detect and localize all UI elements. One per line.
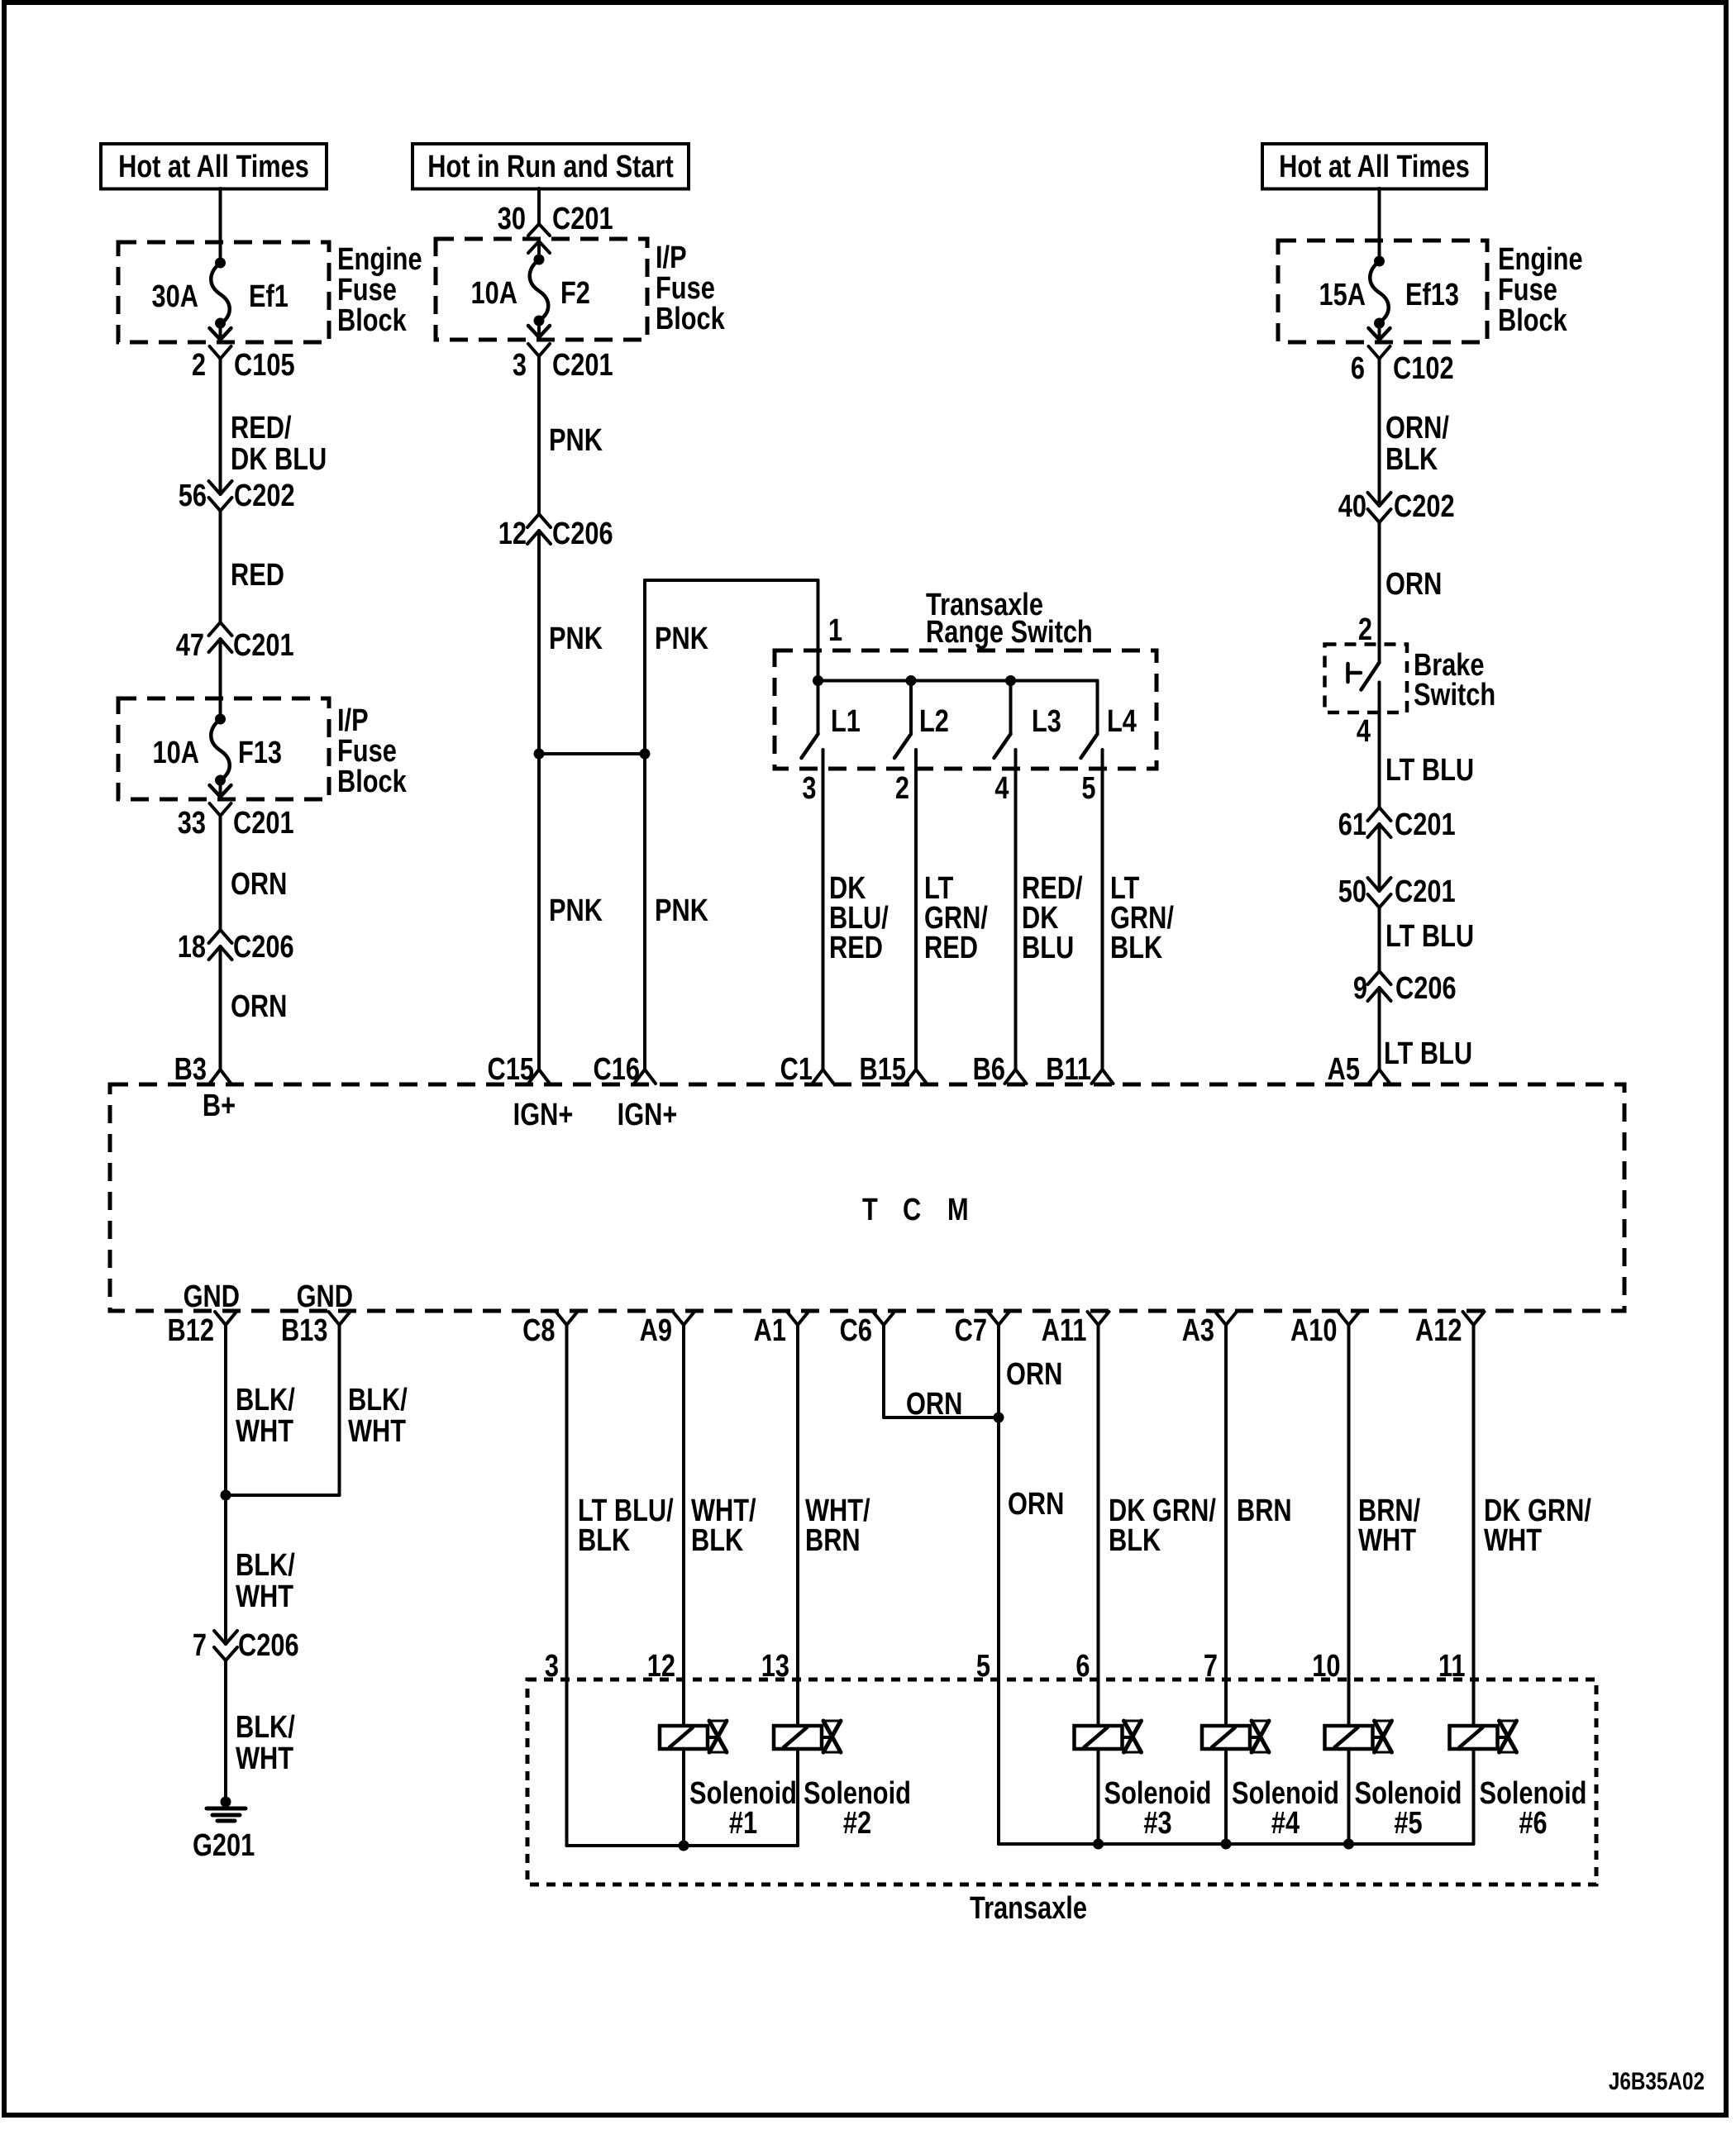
svg-text:3: 3 xyxy=(513,348,527,383)
svg-text:B11: B11 xyxy=(1046,1052,1091,1087)
svg-text:1: 1 xyxy=(828,613,842,648)
svg-text:I/P: I/P xyxy=(656,241,687,275)
svg-text:Fuse: Fuse xyxy=(337,273,397,307)
svg-text:61: 61 xyxy=(1338,808,1366,842)
svg-text:WHT: WHT xyxy=(236,1579,293,1614)
svg-text:BLK: BLK xyxy=(1109,1523,1161,1558)
svg-text:B13: B13 xyxy=(281,1313,327,1348)
svg-text:Engine: Engine xyxy=(337,242,422,277)
svg-text:Hot in Run and Start: Hot in Run and Start xyxy=(427,150,674,184)
svg-text:B3: B3 xyxy=(174,1052,207,1087)
svg-text:B6: B6 xyxy=(973,1052,1005,1087)
svg-text:C206: C206 xyxy=(552,517,613,551)
svg-text:B+: B+ xyxy=(203,1089,236,1123)
svg-text:C8: C8 xyxy=(522,1313,555,1348)
svg-text:BLK: BLK xyxy=(1385,442,1438,477)
svg-text:30: 30 xyxy=(498,202,526,236)
svg-text:7: 7 xyxy=(193,1628,207,1663)
svg-text:6: 6 xyxy=(1351,351,1365,386)
svg-text:Range Switch: Range Switch xyxy=(926,615,1093,650)
svg-text:WHT: WHT xyxy=(236,1414,293,1449)
svg-text:PNK: PNK xyxy=(655,893,708,928)
svg-text:ORN: ORN xyxy=(1008,1487,1064,1522)
svg-text:3: 3 xyxy=(802,771,816,806)
svg-text:Ef13: Ef13 xyxy=(1405,278,1459,312)
svg-text:C7: C7 xyxy=(955,1313,987,1348)
svg-text:13: 13 xyxy=(761,1649,789,1684)
svg-text:C: C xyxy=(903,1193,921,1227)
svg-text:ORN: ORN xyxy=(231,867,287,902)
svg-text:L2: L2 xyxy=(919,704,949,739)
svg-text:C202: C202 xyxy=(234,479,295,513)
svg-text:ORN: ORN xyxy=(1006,1357,1062,1392)
svg-text:C201: C201 xyxy=(233,806,294,841)
svg-text:LT BLU: LT BLU xyxy=(1385,753,1474,788)
svg-text:BLK: BLK xyxy=(1110,931,1162,965)
svg-text:Fuse: Fuse xyxy=(1498,273,1557,307)
svg-text:BLK: BLK xyxy=(691,1523,743,1558)
svg-text:DK BLU: DK BLU xyxy=(231,442,327,477)
svg-text:BLK/: BLK/ xyxy=(348,1383,408,1417)
svg-text:ORN/: ORN/ xyxy=(1385,411,1449,445)
svg-text:Hot at All Times: Hot at All Times xyxy=(1279,150,1470,184)
svg-text:RED: RED xyxy=(231,558,284,593)
svg-text:9: 9 xyxy=(1353,971,1367,1006)
svg-text:RED/: RED/ xyxy=(231,411,292,445)
svg-text:A12: A12 xyxy=(1415,1313,1462,1348)
svg-text:C202: C202 xyxy=(1394,489,1455,524)
svg-text:L3: L3 xyxy=(1032,704,1061,739)
svg-text:C201: C201 xyxy=(1395,874,1456,909)
svg-text:18: 18 xyxy=(178,930,206,965)
svg-text:A11: A11 xyxy=(1042,1313,1087,1348)
svg-text:J6B35A02: J6B35A02 xyxy=(1609,2067,1705,2095)
svg-text:40: 40 xyxy=(1338,489,1366,524)
svg-text:Hot at All Times: Hot at All Times xyxy=(118,150,309,184)
svg-text:RED: RED xyxy=(924,931,978,965)
svg-text:2: 2 xyxy=(192,348,206,383)
svg-text:#2: #2 xyxy=(843,1806,871,1841)
svg-text:C6: C6 xyxy=(840,1313,872,1348)
svg-text:2: 2 xyxy=(1358,612,1372,647)
svg-text:3: 3 xyxy=(545,1649,559,1684)
svg-text:F13: F13 xyxy=(238,736,282,770)
svg-text:C201: C201 xyxy=(552,348,613,383)
svg-text:12: 12 xyxy=(647,1649,675,1684)
svg-text:GND: GND xyxy=(297,1279,353,1314)
svg-text:11: 11 xyxy=(1438,1649,1466,1684)
svg-text:G201: G201 xyxy=(193,1828,255,1863)
svg-text:C15: C15 xyxy=(488,1052,534,1087)
svg-text:C206: C206 xyxy=(233,930,294,965)
svg-text:Transaxle: Transaxle xyxy=(970,1891,1087,1926)
svg-text:PNK: PNK xyxy=(549,622,603,656)
svg-text:C1: C1 xyxy=(780,1052,813,1087)
svg-text:BLK: BLK xyxy=(578,1523,630,1558)
svg-text:WHT: WHT xyxy=(1484,1523,1542,1558)
svg-text:A10: A10 xyxy=(1290,1313,1337,1348)
svg-text:ORN: ORN xyxy=(231,989,287,1024)
svg-text:Block: Block xyxy=(656,302,725,336)
svg-text:A9: A9 xyxy=(640,1313,672,1348)
svg-text:BRN: BRN xyxy=(805,1523,861,1558)
svg-text:2: 2 xyxy=(895,771,909,806)
svg-text:7: 7 xyxy=(1204,1649,1218,1684)
svg-text:C105: C105 xyxy=(234,348,295,383)
svg-text:BLK/: BLK/ xyxy=(236,1548,295,1583)
svg-text:50: 50 xyxy=(1338,874,1366,909)
svg-text:Block: Block xyxy=(337,765,407,799)
svg-text:10: 10 xyxy=(1312,1649,1340,1684)
svg-text:BRN: BRN xyxy=(1237,1494,1292,1528)
svg-text:T: T xyxy=(862,1193,878,1227)
svg-text:Block: Block xyxy=(1498,303,1567,338)
svg-text:L1: L1 xyxy=(831,704,861,739)
svg-text:Block: Block xyxy=(337,303,407,338)
svg-text:Switch: Switch xyxy=(1414,678,1495,712)
svg-text:10A: 10A xyxy=(471,276,517,311)
svg-text:4: 4 xyxy=(1357,714,1371,749)
svg-text:C102: C102 xyxy=(1393,351,1454,386)
svg-text:#4: #4 xyxy=(1271,1806,1300,1841)
svg-text:IGN+: IGN+ xyxy=(513,1098,574,1132)
svg-text:WHT: WHT xyxy=(348,1414,406,1449)
svg-text:LT BLU: LT BLU xyxy=(1385,919,1474,954)
svg-text:B15: B15 xyxy=(860,1052,906,1087)
svg-text:WHT: WHT xyxy=(236,1741,293,1776)
svg-text:PNK: PNK xyxy=(549,893,603,928)
svg-text:30A: 30A xyxy=(152,279,198,314)
svg-text:A1: A1 xyxy=(754,1313,786,1348)
svg-text:C201: C201 xyxy=(1395,808,1456,842)
svg-text:#5: #5 xyxy=(1394,1806,1422,1841)
svg-text:BLK/: BLK/ xyxy=(236,1710,295,1745)
svg-text:C206: C206 xyxy=(1395,971,1457,1006)
svg-text:M: M xyxy=(947,1193,969,1227)
svg-text:Engine: Engine xyxy=(1498,242,1583,277)
svg-text:C201: C201 xyxy=(552,202,613,236)
svg-text:47: 47 xyxy=(176,628,204,663)
svg-text:#6: #6 xyxy=(1519,1806,1547,1841)
svg-text:C206: C206 xyxy=(238,1628,299,1663)
svg-text:A5: A5 xyxy=(1328,1052,1360,1087)
svg-text:PNK: PNK xyxy=(655,622,708,656)
svg-text:Fuse: Fuse xyxy=(656,271,715,306)
svg-text:C16: C16 xyxy=(594,1052,640,1087)
svg-text:B12: B12 xyxy=(168,1313,214,1348)
svg-text:BLK/: BLK/ xyxy=(236,1383,295,1417)
svg-text:5: 5 xyxy=(976,1649,990,1684)
svg-text:5: 5 xyxy=(1081,771,1095,806)
svg-text:C201: C201 xyxy=(233,628,294,663)
svg-text:PNK: PNK xyxy=(549,423,603,458)
svg-text:10A: 10A xyxy=(153,736,199,770)
svg-text:BLU: BLU xyxy=(1022,931,1074,965)
svg-text:#3: #3 xyxy=(1143,1806,1171,1841)
svg-text:F2: F2 xyxy=(560,276,590,311)
svg-text:33: 33 xyxy=(178,806,206,841)
svg-text:A3: A3 xyxy=(1182,1313,1214,1348)
svg-text:ORN: ORN xyxy=(1385,567,1442,602)
svg-text:12: 12 xyxy=(498,517,527,551)
svg-text:L4: L4 xyxy=(1107,704,1137,739)
svg-text:GND: GND xyxy=(184,1279,240,1314)
svg-text:LT BLU: LT BLU xyxy=(1384,1036,1472,1071)
svg-text:#1: #1 xyxy=(729,1806,757,1841)
svg-text:6: 6 xyxy=(1075,1649,1090,1684)
svg-text:I/P: I/P xyxy=(337,703,369,738)
svg-text:RED: RED xyxy=(829,931,883,965)
svg-text:IGN+: IGN+ xyxy=(618,1098,678,1132)
svg-text:56: 56 xyxy=(179,479,207,513)
svg-text:WHT: WHT xyxy=(1358,1523,1416,1558)
svg-text:15A: 15A xyxy=(1319,278,1366,312)
svg-text:ORN: ORN xyxy=(906,1387,962,1422)
svg-text:4: 4 xyxy=(994,771,1009,806)
svg-text:Fuse: Fuse xyxy=(337,734,397,769)
svg-text:Ef1: Ef1 xyxy=(249,279,289,314)
